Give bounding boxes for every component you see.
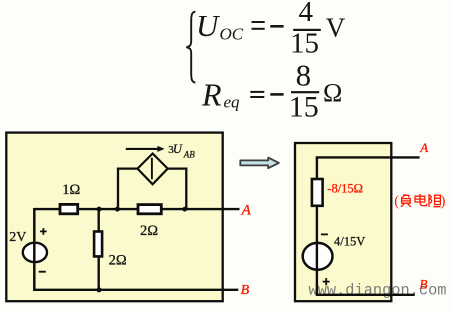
svg-text:2V: 2V bbox=[9, 230, 26, 245]
svg-text:4/15V: 4/15V bbox=[334, 234, 365, 248]
dependent source inner bar bbox=[151, 158, 153, 180]
svg-text:1Ω: 1Ω bbox=[62, 182, 80, 198]
V2 minus sign bbox=[321, 233, 328, 235]
svg-text:Ω: Ω bbox=[323, 78, 342, 107]
wire: dependent source right leg bbox=[167, 169, 187, 210]
equation Uoc equals sign bbox=[252, 21, 265, 23]
resistor R1 1ohm body bbox=[60, 204, 78, 213]
control arrowhead bbox=[157, 146, 164, 152]
equation Req minus sign bbox=[270, 93, 283, 96]
wire: left branch vertical through source bbox=[33, 208, 36, 291]
junction node dot at middle branch top bbox=[97, 207, 102, 212]
voltage source V2 circle (4/15V) bbox=[303, 243, 333, 270]
V1 minus sign bbox=[39, 271, 46, 273]
svg-text:A: A bbox=[419, 140, 428, 155]
svg-text:2Ω: 2Ω bbox=[140, 223, 158, 239]
svg-text:R: R bbox=[201, 77, 222, 113]
wire: right top rail to node A bbox=[316, 156, 420, 158]
resistor R4 -8/15 ohm body bbox=[312, 179, 323, 206]
control arrow shaft above source bbox=[126, 148, 159, 150]
svg-text:15: 15 bbox=[289, 91, 319, 124]
V1 plus sign bbox=[40, 228, 47, 235]
voltage source V1 circle (2V) bbox=[23, 243, 47, 262]
svg-text:8: 8 bbox=[296, 57, 312, 92]
junction node dot right of dependent source bbox=[182, 207, 187, 212]
block arrow between circuits bbox=[240, 158, 279, 169]
svg-text:4: 4 bbox=[299, 0, 314, 28]
right circuit enclosure box bbox=[295, 143, 391, 301]
svg-text:eq: eq bbox=[224, 93, 241, 112]
svg-text:-8/15Ω: -8/15Ω bbox=[327, 181, 363, 195]
junction node dot bottom of middle branch bbox=[97, 287, 102, 292]
equation Req fraction bar bbox=[291, 91, 319, 93]
svg-text:U: U bbox=[196, 8, 221, 43]
wire: right bottom rail to node B bbox=[316, 294, 415, 296]
wire: right branch vertical through source bbox=[316, 157, 318, 294]
equation Uoc minus sign bbox=[270, 25, 283, 28]
resistor R3 2ohm horizontal body bbox=[138, 205, 161, 214]
svg-text:AB: AB bbox=[183, 149, 195, 159]
V2 plus sign bbox=[323, 278, 330, 285]
annotation hanzi dian (electric) bbox=[415, 194, 427, 206]
equation Req equals sign bbox=[250, 91, 264, 93]
brace of equation system bbox=[186, 12, 195, 83]
wire: dependent source left leg bbox=[118, 169, 139, 210]
dependent current source diamond bbox=[138, 154, 168, 185]
annotation hanzi fu (negative) bbox=[401, 194, 411, 207]
svg-text:B: B bbox=[420, 276, 428, 291]
svg-text:U: U bbox=[173, 142, 183, 156]
wire: left top horizontal (node A rail) bbox=[34, 208, 239, 210]
svg-text:B: B bbox=[241, 283, 250, 298]
equation Uoc fraction bar bbox=[293, 29, 321, 31]
svg-text:(: ( bbox=[394, 194, 399, 210]
svg-text:A: A bbox=[241, 203, 252, 219]
svg-text:V: V bbox=[326, 13, 346, 43]
wire: middle branch vertical bbox=[97, 209, 99, 290]
resistor R2 2ohm vertical body bbox=[94, 232, 102, 257]
wire: left bottom horizontal (node B rail) bbox=[34, 289, 238, 291]
svg-text:): ) bbox=[441, 194, 446, 210]
junction node dot left of dependent source bbox=[115, 207, 120, 212]
svg-text:OC: OC bbox=[220, 25, 244, 44]
annotation hanzi zu (resistance) bbox=[429, 194, 440, 207]
left circuit enclosure box bbox=[6, 133, 222, 302]
svg-text:15: 15 bbox=[290, 28, 319, 60]
svg-text:2Ω: 2Ω bbox=[109, 253, 127, 269]
